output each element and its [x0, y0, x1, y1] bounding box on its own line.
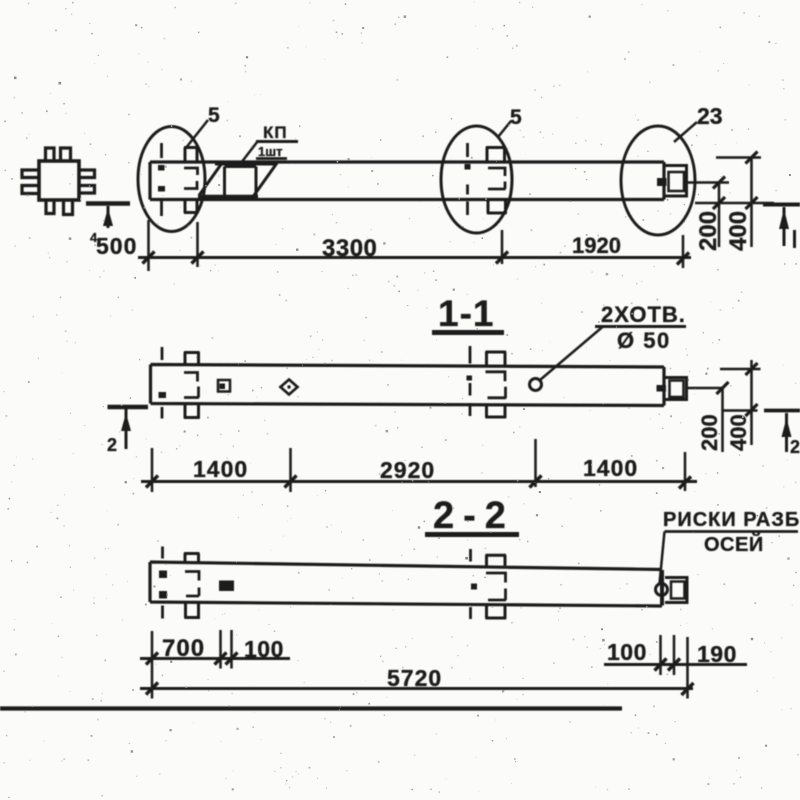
svg-text:500: 500 [96, 233, 137, 259]
svg-text:190: 190 [697, 641, 737, 667]
svg-text:2920: 2920 [380, 457, 435, 483]
svg-text:5: 5 [208, 104, 220, 127]
svg-text:5720: 5720 [387, 665, 442, 691]
svg-text:2ХОТВ.: 2ХОТВ. [601, 302, 686, 327]
svg-text:1400: 1400 [193, 456, 248, 482]
svg-text:1400: 1400 [583, 455, 638, 481]
svg-text:ОСЕЙ: ОСЕЙ [704, 532, 764, 556]
svg-text:2: 2 [790, 437, 800, 457]
svg-text:700: 700 [162, 635, 205, 662]
svg-text:1шт: 1шт [258, 144, 282, 159]
svg-text:400: 400 [726, 414, 751, 451]
svg-text:2-2: 2-2 [433, 495, 515, 537]
svg-text:23: 23 [697, 103, 723, 129]
svg-text:100: 100 [607, 639, 647, 665]
svg-text:2: 2 [107, 435, 117, 455]
svg-text:400: 400 [725, 211, 752, 251]
svg-text:1920: 1920 [572, 233, 621, 258]
svg-text:3300: 3300 [322, 235, 377, 262]
svg-text:Ø 50: Ø 50 [617, 328, 671, 353]
svg-text:РИСКИ РАЗБ: РИСКИ РАЗБ [663, 509, 800, 531]
svg-text:200: 200 [697, 414, 722, 451]
svg-text:КП: КП [263, 123, 288, 142]
svg-text:100: 100 [244, 636, 284, 662]
svg-text:200: 200 [695, 211, 722, 251]
svg-text:5: 5 [510, 106, 522, 129]
svg-text:1-1: 1-1 [438, 293, 494, 334]
